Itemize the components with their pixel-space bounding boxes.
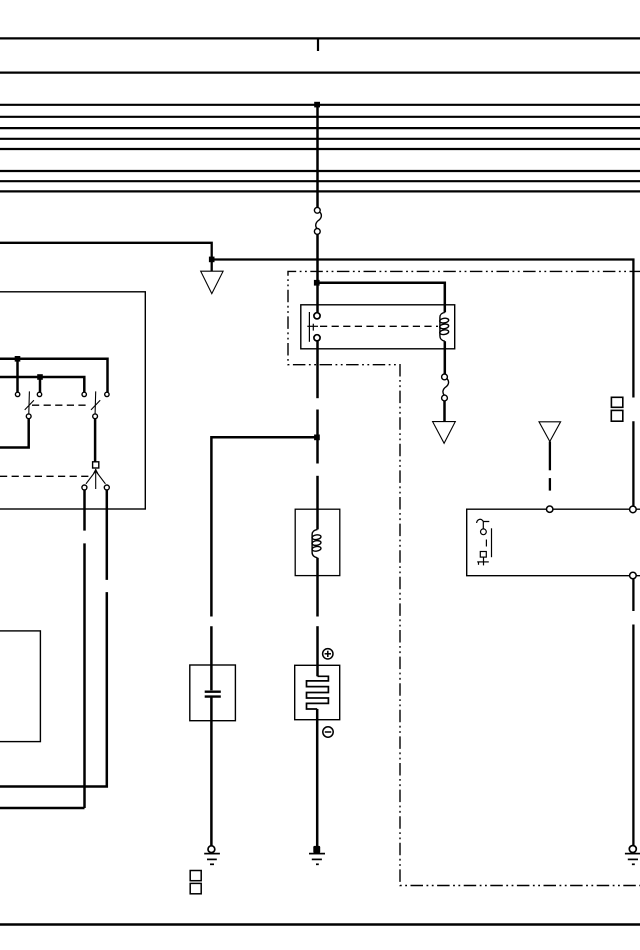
switch blade 1 — [28, 391, 31, 413]
bus line 5 — [0, 127, 640, 129]
selector contacts — [82, 485, 87, 490]
horn ground bars — [309, 854, 325, 865]
horn plus terminal — [323, 649, 333, 659]
selector common square — [93, 462, 99, 468]
horn switch box terminal 2 — [630, 506, 637, 513]
stub to terminal 1 — [16, 359, 19, 392]
bus line 6 — [0, 138, 640, 140]
switch blade 2 — [94, 391, 97, 413]
right ground bars — [625, 854, 640, 865]
bottom border — [0, 923, 640, 926]
junction dot at horn node — [314, 435, 320, 441]
stub to terminal 2 — [39, 377, 42, 392]
suppressor coil L2 — [312, 529, 322, 557]
relay box U1 — [301, 305, 455, 349]
horn switch box terminal 3 — [630, 572, 637, 579]
horn ground blob — [313, 846, 320, 853]
wire segment 5 into horn — [316, 626, 319, 676]
selector link dashed — [0, 475, 91, 477]
junction dot at node A — [209, 257, 215, 263]
arrow triangle B (down) — [433, 422, 456, 444]
wire: main vertical from bus to fuse coil — [316, 105, 319, 208]
big combination switch box — [0, 292, 145, 509]
horn minus terminal — [323, 727, 333, 737]
suppressor coil box — [295, 509, 340, 575]
wire: squiggle to arrow B — [443, 401, 446, 422]
bus line 7 — [0, 148, 640, 150]
condenser ground bars — [204, 854, 220, 865]
fuse squiggle F1 — [314, 207, 321, 234]
arrow triangle C (down) — [539, 422, 561, 442]
condenser plates — [205, 691, 221, 693]
bus line 9 — [0, 180, 640, 182]
feed wire 2 — [0, 377, 84, 392]
connector squares bottom left — [190, 871, 201, 881]
right wire to ground — [632, 579, 634, 611]
relay bottom terminal wire segment 1 — [316, 341, 319, 398]
junction dot W1 — [15, 356, 21, 362]
wire segment 2 with junction — [316, 410, 319, 464]
wire: squiggle to relay top terminal — [316, 234, 319, 312]
relay mechanical link (dashed) — [320, 325, 438, 327]
bus line 2 — [0, 71, 640, 73]
wire: horn to ground — [316, 709, 319, 847]
condenser wire into box — [210, 626, 213, 690]
junction dot at relay coil branch — [314, 280, 320, 286]
wire: relay coil to squiggle — [444, 341, 447, 374]
wire below arrow C — [549, 442, 551, 471]
junction dot W2 — [37, 374, 43, 380]
bus line 3 — [0, 104, 640, 106]
wire from lower contact 2 — [94, 419, 97, 462]
wire: relay coil feed branch — [317, 283, 445, 313]
relay top terminal — [314, 313, 320, 319]
junction dot bus line 3 — [314, 102, 320, 108]
horn box H1 — [295, 665, 340, 719]
wire segment 4 below coil — [316, 558, 319, 617]
relay coil L1 — [439, 312, 449, 341]
wire from lower contact 1 — [0, 419, 29, 448]
horn switch box terminal 1 — [547, 506, 553, 512]
lower contact circles — [26, 414, 31, 419]
switch link dashed — [32, 404, 90, 406]
inner rect bottom left — [0, 631, 40, 742]
feed wire 1 — [0, 359, 108, 392]
relay contact bar — [308, 312, 310, 342]
selector blade — [95, 469, 97, 489]
switch terminals row — [15, 392, 109, 396]
wire: branch to condenser — [211, 437, 317, 616]
bus line 10 — [0, 190, 640, 192]
wire: left feed line at top — [0, 243, 212, 271]
relay bottom terminal — [314, 335, 320, 341]
selector diagonals — [86, 471, 96, 484]
wire from selector contact right — [106, 490, 109, 580]
right wire lower segment — [632, 421, 634, 506]
bus line 4 — [0, 116, 640, 118]
right ground circle — [629, 846, 636, 853]
condenser ground circle — [208, 846, 215, 853]
condenser wire to ground — [210, 697, 213, 846]
stub tick on bus line 1 — [317, 38, 319, 51]
horn switch box — [467, 509, 640, 576]
harness boundary (dash-dot-dot) — [288, 271, 640, 885]
horn switch symbol — [477, 519, 492, 565]
fuse squiggle F2 — [442, 374, 449, 401]
arrow triangle A (down) — [201, 271, 223, 293]
wire: horizontal to right edge corner — [212, 260, 634, 398]
horn element meander — [307, 676, 329, 709]
relay contact cross mark — [307, 325, 318, 327]
connector squares right — [611, 397, 622, 407]
wire from selector contact left — [83, 490, 86, 531]
wire segment 3 to suppressor coil — [316, 476, 319, 530]
condenser box C1 — [190, 665, 236, 721]
bus line 8 — [0, 170, 640, 172]
bus line 1 — [0, 37, 640, 39]
